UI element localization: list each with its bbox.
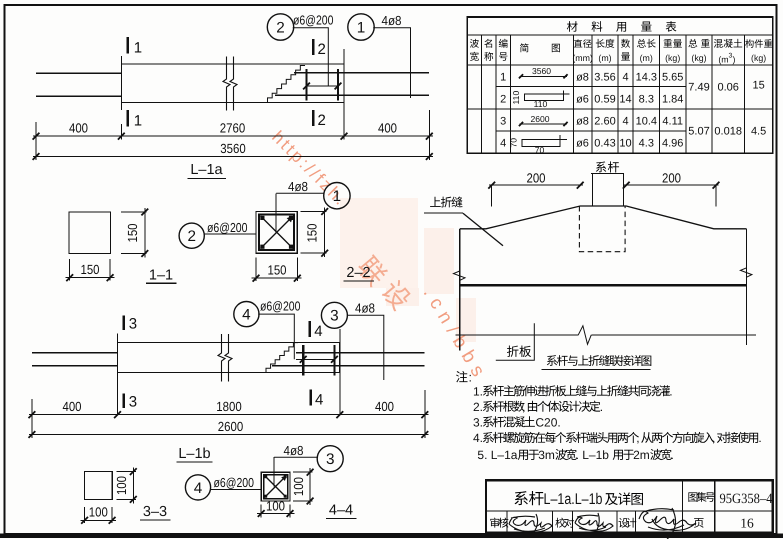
- label 设计: [619, 518, 629, 528]
- label 页: [694, 518, 704, 528]
- svg-text:400: 400: [63, 399, 82, 414]
- svg-text:3–3: 3–3: [143, 504, 167, 520]
- signature 3: [639, 508, 696, 539]
- svg-text:ø6@200: ø6@200: [207, 220, 248, 235]
- svg-text:1.: 1.: [473, 384, 483, 398]
- svg-text:(kg): (kg): [691, 53, 706, 63]
- detail label 系杆: [596, 162, 606, 173]
- svg-text:150: 150: [81, 262, 100, 277]
- svg-text:(m): (m): [598, 53, 611, 63]
- detail left wall: [459, 229, 461, 351]
- svg-text:4: 4: [314, 323, 322, 340]
- svg-text:14: 14: [619, 94, 631, 106]
- svg-text:8.3: 8.3: [639, 94, 654, 106]
- svg-text:150: 150: [125, 223, 140, 242]
- svg-text:0.06: 0.06: [717, 82, 738, 94]
- svg-text:0.018: 0.018: [714, 126, 742, 138]
- section 4-4 right dim 100: [293, 471, 313, 473]
- svg-text:4–4: 4–4: [329, 503, 353, 519]
- svg-text:ø8: ø8: [576, 72, 589, 84]
- table title 材料用量表: [567, 21, 578, 32]
- svg-text:3: 3: [500, 116, 506, 128]
- svg-text:4: 4: [315, 391, 323, 408]
- section mark 3-3 ticks: [123, 316, 126, 331]
- svg-text:3m: 3m: [538, 448, 555, 462]
- beam L-1a outline: [121, 64, 344, 103]
- svg-text:14.3: 14.3: [636, 72, 657, 84]
- svg-text:4ø8: 4ø8: [288, 179, 308, 194]
- label 校对: [555, 518, 565, 528]
- detail right wall: [746, 229, 748, 345]
- section 3-3 square: [85, 472, 113, 500]
- svg-text:4.11: 4.11: [662, 116, 683, 128]
- svg-text:4.96: 4.96: [662, 138, 683, 150]
- svg-text:1: 1: [134, 113, 142, 130]
- svg-text:0.43: 0.43: [594, 138, 615, 150]
- signature 1: [509, 514, 552, 532]
- svg-text:(kg): (kg): [665, 53, 680, 63]
- svg-text:0.59: 0.59: [594, 94, 615, 106]
- svg-text:150: 150: [268, 262, 287, 277]
- svg-text:4: 4: [622, 116, 628, 128]
- callout circle 4 with label: [234, 302, 259, 327]
- L-1a dimension 3560: [33, 156, 433, 158]
- svg-text:ø6@200: ø6@200: [293, 13, 334, 28]
- svg-text:4.: 4.: [473, 431, 483, 445]
- svg-text:.: .: [600, 400, 603, 414]
- svg-text:200: 200: [527, 170, 546, 185]
- svg-text:10.4: 10.4: [636, 116, 657, 128]
- L-1b folded-plate stepped edge: [266, 343, 298, 373]
- L-1a left protruding rebars: [36, 72, 121, 74]
- svg-text:1: 1: [333, 188, 342, 205]
- svg-text:70: 70: [508, 138, 518, 148]
- section 4-4 corner rebar dots: [264, 475, 267, 478]
- svg-text:(m): (m): [640, 53, 653, 63]
- svg-text:10: 10: [619, 138, 631, 150]
- svg-text:L–1a: L–1a: [190, 162, 223, 178]
- svg-text:L–1b: L–1b: [178, 446, 210, 462]
- callout circle 3 with label: [321, 302, 347, 328]
- section 1-1 right dim 150: [121, 211, 147, 213]
- svg-text:2600: 2600: [530, 114, 549, 124]
- svg-text:2760: 2760: [220, 121, 245, 136]
- section mark 1-1 ticks: [126, 37, 129, 54]
- svg-text:ø6@200: ø6@200: [214, 475, 255, 490]
- table sketch row1: bar 3560: [520, 75, 568, 77]
- svg-text:100: 100: [114, 476, 129, 495]
- svg-text:4ø8: 4ø8: [355, 301, 375, 316]
- section 2-2 squares: [256, 212, 297, 254]
- hidden tie bar dashed box: [579, 206, 625, 252]
- callout circle 3 4ø8: [317, 446, 343, 472]
- title block frame: [486, 480, 773, 532]
- svg-text:2: 2: [276, 19, 285, 36]
- svg-text:110: 110: [534, 99, 548, 109]
- svg-text:150: 150: [305, 223, 320, 242]
- svg-text:15: 15: [752, 80, 764, 92]
- beam L-1b outline: [118, 343, 340, 373]
- label 折板 with leader: [507, 346, 519, 357]
- svg-text:4: 4: [194, 480, 203, 497]
- svg-text:): ): [733, 55, 736, 65]
- watermark CJK chars: [355, 253, 390, 288]
- section 1-1 bottom dim 150: [69, 259, 71, 281]
- svg-text::: :: [469, 371, 472, 385]
- svg-text:1800: 1800: [216, 399, 241, 414]
- section 3-3 bottom dim 100: [84, 507, 86, 523]
- svg-text:4ø8: 4ø8: [284, 443, 304, 458]
- svg-text:2: 2: [318, 112, 326, 129]
- svg-text:1: 1: [500, 72, 506, 84]
- svg-text:100: 100: [89, 505, 108, 520]
- svg-text:2: 2: [187, 228, 196, 245]
- svg-text:ø6: ø6: [576, 94, 589, 106]
- svg-text:5.07: 5.07: [688, 126, 709, 138]
- table sketch row2: stirrup 110x110: [524, 94, 563, 101]
- svg-text:2.60: 2.60: [594, 116, 615, 128]
- detail slab thick line: [460, 284, 747, 287]
- svg-text:4.3: 4.3: [639, 138, 654, 150]
- svg-text:3.56: 3.56: [594, 72, 615, 84]
- L-1b right protruding rebars: [296, 352, 425, 354]
- L-1b break symbol: [218, 334, 225, 382]
- svg-text:3: 3: [129, 316, 137, 333]
- label 图集号: [688, 492, 697, 501]
- svg-text:1: 1: [134, 40, 142, 57]
- svg-text:3: 3: [326, 451, 335, 468]
- label 审核: [490, 518, 499, 528]
- section 3-3 right dim 100: [117, 471, 137, 473]
- section 2-2 right dim 150: [301, 211, 327, 213]
- callout circle 1 with label: [348, 14, 374, 40]
- detail dim 200 left: [489, 184, 583, 186]
- svg-text:2: 2: [500, 94, 506, 106]
- svg-text:7.49: 7.49: [688, 82, 709, 94]
- callout circle 2 ø6@200: [179, 223, 204, 248]
- svg-text:ø6@200: ø6@200: [260, 299, 301, 314]
- svg-text:4ø8: 4ø8: [382, 13, 402, 28]
- svg-text:4: 4: [242, 307, 251, 324]
- svg-text:C20.: C20.: [535, 415, 560, 429]
- svg-text:3: 3: [129, 394, 137, 411]
- svg-text:4: 4: [500, 138, 506, 150]
- svg-text:2m: 2m: [633, 448, 650, 462]
- section 2-2 corner rebar dots: [260, 216, 264, 220]
- svg-text:3560: 3560: [532, 66, 551, 76]
- svg-text:4: 4: [622, 72, 628, 84]
- L-1a end stirrups: [305, 69, 307, 101]
- svg-text:1.84: 1.84: [662, 94, 683, 106]
- L-1a dimension 400/2760/400: [35, 122, 37, 160]
- L-1b dimension 400/1800/400: [31, 399, 33, 438]
- section mark 2-2 ticks: [312, 39, 315, 55]
- L-1a folded-plate stepped edge: [268, 66, 306, 103]
- svg-text:.: .: [669, 384, 672, 398]
- L-1b left protruding rebars: [32, 352, 118, 354]
- section 2-2 cross diagonals: [261, 216, 294, 249]
- svg-text:95G358–4: 95G358–4: [720, 491, 773, 507]
- svg-text:5. L–1a: 5. L–1a: [477, 448, 517, 462]
- svg-text:400: 400: [69, 121, 88, 136]
- svg-text:2–2: 2–2: [346, 265, 370, 281]
- svg-text:3: 3: [330, 308, 339, 325]
- svg-text:2600: 2600: [218, 419, 243, 434]
- L-1b end stirrups: [302, 345, 304, 376]
- svg-text:3560: 3560: [220, 141, 245, 156]
- section mark 4-4 ticks: [308, 321, 311, 337]
- detail lower plate line with break: [455, 334, 578, 336]
- section 1-1 square: [69, 212, 111, 254]
- L-1a break symbol: [223, 57, 230, 111]
- svg-text:L–1a.L–1b: L–1a.L–1b: [544, 491, 603, 508]
- svg-text:(m: (m: [718, 55, 728, 65]
- svg-text:1: 1: [357, 19, 366, 36]
- svg-text:400: 400: [378, 121, 397, 136]
- svg-text:.: .: [758, 431, 761, 445]
- svg-text:4.5: 4.5: [751, 126, 766, 138]
- svg-text:. L–1b: . L–1b: [576, 448, 610, 462]
- svg-text:3.: 3.: [473, 415, 483, 429]
- svg-text:400: 400: [375, 399, 394, 414]
- svg-text:(mm): (mm): [572, 53, 593, 63]
- svg-text:,: ,: [712, 431, 715, 445]
- svg-text:,: ,: [522, 400, 525, 414]
- title 系杆L-1a.L-1b及详图: [514, 491, 527, 505]
- caption 系杆与上折缝联接详图: [547, 355, 557, 366]
- svg-text:1–1: 1–1: [149, 268, 173, 284]
- L-1b dimension 2600: [29, 434, 429, 436]
- svg-text:(kg): (kg): [751, 53, 766, 63]
- svg-text:ø8: ø8: [576, 116, 589, 128]
- table headers: [470, 39, 479, 48]
- detail dim 200 right: [624, 184, 719, 186]
- material table grid: [467, 34, 773, 36]
- svg-text:200: 200: [662, 170, 681, 185]
- svg-text:100: 100: [291, 477, 306, 496]
- section 4-4 squares: [261, 472, 290, 501]
- folded plate roof profile: [460, 206, 747, 229]
- callout circle 4 ø6@200: [185, 475, 210, 500]
- table sketch row3: bar 2600: [520, 123, 568, 125]
- notes 注:: [456, 371, 468, 382]
- svg-text:2.: 2.: [473, 400, 483, 414]
- section 4-4 bottom dim 100: [260, 505, 262, 518]
- svg-text:70: 70: [535, 145, 545, 155]
- callout circle 2 with label: [267, 14, 293, 40]
- svg-text:16: 16: [740, 515, 754, 530]
- callout circle 1 4ø8: [324, 183, 350, 209]
- L-1a right protruding rebars: [294, 72, 429, 74]
- label 上折缝 with leader: [430, 197, 441, 207]
- svg-text:ø6: ø6: [576, 138, 589, 150]
- svg-text:100: 100: [266, 499, 285, 514]
- watermark pale patches: [340, 198, 476, 342]
- svg-text:110: 110: [511, 91, 521, 105]
- svg-text:,: ,: [636, 431, 639, 445]
- table sketch row4: stirrup 70x70: [522, 139, 560, 146]
- svg-text:2: 2: [318, 41, 326, 58]
- svg-text:.: .: [671, 448, 674, 462]
- material table frame: [467, 17, 773, 153]
- section 4-4 cross diagonals: [265, 476, 287, 498]
- svg-text:5.65: 5.65: [662, 72, 683, 84]
- signature 2: [575, 513, 613, 531]
- section 2-2 bottom dim 150: [255, 258, 257, 281]
